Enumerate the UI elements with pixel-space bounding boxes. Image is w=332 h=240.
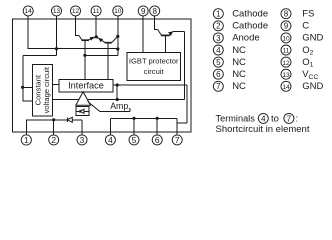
svg-text:6: 6 (155, 135, 160, 145)
svg-text:NC: NC (232, 69, 246, 80)
node pin6 junction (156, 117, 159, 120)
LED triangle (67, 117, 72, 122)
pin 14 lead (27, 16, 29, 19)
wire pin5 branch (133, 118, 135, 134)
wire Vcc left drop to constant voltage circuit (23, 56, 57, 101)
svg-text:Cathode: Cathode (232, 21, 268, 32)
wire Q3 emitter to amp output (87, 31, 184, 99)
pin 8 circle (150, 6, 160, 16)
wire LED anode to pin3 (72, 120, 82, 135)
wire NC bus pins 4-7 (110, 118, 177, 134)
photodiode stubs (76, 110, 89, 112)
svg-text:14: 14 (282, 84, 290, 91)
photodiode box PD (76, 107, 89, 116)
note terminals 4 to 7 (216, 114, 310, 135)
legend pin 5 circle (213, 57, 223, 67)
legend pin 9 circle (281, 21, 291, 31)
svg-text:2: 2 (216, 22, 221, 31)
pin 12 lead (75, 16, 77, 19)
node O2 junction (95, 35, 98, 38)
svg-text:circuit: circuit (144, 67, 165, 76)
svg-text:13: 13 (282, 72, 290, 79)
wire constant voltage to interface (53, 84, 60, 86)
svg-text:4: 4 (216, 46, 221, 55)
transistor Q2 emitter arrow (98, 38, 103, 42)
svg-text:14: 14 (25, 8, 33, 15)
svg-text:12: 12 (282, 60, 290, 67)
legend pin 1 circle (213, 9, 223, 19)
wire pin10 vertical (117, 19, 119, 55)
svg-text:4: 4 (261, 114, 266, 123)
legend pin 12 circle (281, 57, 291, 67)
svg-text:2: 2 (51, 135, 56, 145)
IGBT protector circuit block box (127, 53, 181, 81)
pin 11 circle (91, 6, 101, 16)
svg-text:13: 13 (53, 8, 61, 15)
wire pin6 branch (156, 118, 158, 134)
pin 4 circle (105, 135, 115, 145)
node Vcc CV branch junction (21, 86, 24, 89)
transistor Q2 collector diagonal (112, 36, 118, 42)
right panel pin list (213, 9, 323, 93)
wire amp label underline (100, 109, 130, 112)
svg-text:6: 6 (216, 70, 221, 79)
svg-text:GND: GND (302, 33, 323, 44)
svg-text:5: 5 (216, 58, 221, 67)
pin 3 circle (77, 135, 87, 145)
svg-text:1: 1 (216, 10, 221, 19)
legend pin 7 circle (213, 81, 223, 91)
transistor Q3 emitter arrow (168, 32, 173, 37)
wire pin12 vertical (76, 19, 79, 36)
pin 2 circle (49, 135, 59, 145)
wire pin8 vertical (155, 19, 158, 29)
pin 10 lead (117, 16, 119, 19)
svg-text:11: 11 (283, 48, 290, 55)
transistor Q3 base bar (161, 34, 170, 36)
svg-text:3: 3 (216, 34, 221, 43)
svg-text:FS: FS (302, 9, 314, 20)
pin 1 circle (21, 135, 31, 145)
node Q1 base junction (83, 54, 86, 57)
pin 10 circle (113, 6, 123, 16)
transistor Q2 base bar (105, 42, 112, 44)
svg-text:11: 11 (93, 8, 100, 15)
pin 6 circle (152, 135, 162, 145)
svg-text:10: 10 (114, 8, 122, 15)
legend pin 4 circle (213, 45, 223, 55)
legend pin 11 circle (281, 45, 291, 55)
note pin 4 circle (258, 113, 268, 123)
node GND rail junction (116, 47, 119, 50)
transistor Q1 emitter arrow (90, 37, 95, 41)
transistor Q3 collector diagonal (158, 29, 162, 35)
svg-text:9: 9 (284, 22, 289, 31)
amp triangle (76, 92, 91, 106)
wire pin11 vertical (95, 19, 97, 37)
wire pin14 GND rail (28, 19, 118, 49)
pin 5 circle (129, 135, 139, 145)
wire mid rail (85, 54, 118, 56)
package outline box (13, 19, 192, 132)
svg-text:Amp.: Amp. (110, 101, 131, 111)
photodiode cathode bar (79, 109, 81, 113)
svg-text:Anode: Anode (232, 33, 259, 44)
pin 8 lead (154, 16, 156, 19)
interface block box (59, 80, 113, 93)
svg-text:NC: NC (232, 57, 246, 68)
legend pin 13 circle (281, 69, 291, 79)
node interface right junction (116, 83, 119, 86)
svg-text:Interface: Interface (68, 81, 104, 91)
pin 14 circle (23, 6, 33, 16)
wire input cathode pins 1-2 (26, 120, 67, 135)
svg-text:Cathode: Cathode (232, 9, 268, 20)
wire interface-right to amp bus (116, 85, 118, 100)
svg-text:NC: NC (232, 81, 246, 92)
wire pin2 branch (53, 120, 55, 135)
svg-text:7: 7 (175, 135, 180, 145)
wire Q1 base to interface (84, 41, 86, 80)
node pin13 rail junction (55, 47, 58, 50)
photodiode triangle (80, 109, 84, 113)
svg-text:7: 7 (216, 82, 221, 91)
svg-text:8: 8 (284, 10, 289, 19)
legend pin 8 circle (281, 9, 291, 19)
transistor Q1 collector diagonal (79, 36, 82, 40)
svg-text:GND: GND (302, 81, 323, 92)
pin 9 lead (142, 16, 144, 19)
wire constant voltage to amp input (53, 98, 80, 100)
wire interface right to FS drop (113, 85, 187, 123)
svg-text:4: 4 (108, 135, 113, 145)
svg-text:Shortcircuit in element: Shortcircuit in element (216, 124, 310, 135)
pin 12 circle (71, 6, 81, 16)
svg-text:12: 12 (72, 8, 80, 15)
svg-text:8: 8 (152, 7, 157, 16)
svg-text:7: 7 (287, 114, 292, 123)
svg-text:voltage circuit: voltage circuit (42, 66, 51, 113)
legend pin 10 circle (281, 33, 291, 43)
svg-text:3: 3 (80, 135, 85, 145)
pin 11 lead (95, 16, 97, 19)
wire Q2 base to interface (107, 43, 109, 80)
LED cathode bar (66, 118, 68, 123)
transistor Q2 emitter diagonal (97, 37, 105, 43)
svg-text:NC: NC (232, 45, 246, 56)
legend pin 3 circle (213, 33, 223, 43)
block labels (34, 56, 179, 113)
pin 13 lead (56, 16, 58, 19)
svg-text:10: 10 (282, 36, 290, 43)
svg-text:Terminals: Terminals (216, 114, 256, 124)
pin 9 circle (138, 6, 148, 16)
node pin2 junction (52, 118, 55, 121)
junction dots (21, 35, 159, 122)
note pin 7 circle (284, 113, 294, 123)
transistor Q3 emitter diagonal (169, 31, 173, 35)
svg-text:9: 9 (141, 7, 146, 16)
constant voltage circuit block box (33, 65, 53, 117)
transistor Q1 emitter diagonal (89, 37, 97, 40)
node pin5 junction (132, 117, 135, 120)
svg-text:1: 1 (24, 135, 29, 145)
wire pin9 to IGBT protector (142, 19, 144, 53)
legend pin 6 circle (213, 69, 223, 79)
transistor Q1 base bar (82, 39, 89, 41)
pin 7 circle (172, 135, 182, 145)
wire Q3 base to IGBT protector (165, 36, 167, 53)
node amp bus junction (116, 98, 119, 101)
legend pin 14 circle (281, 81, 291, 91)
node Q2 collector junction (116, 35, 119, 38)
pin 13 circle (52, 6, 62, 16)
amp label leader diagonal (88, 102, 100, 112)
svg-text:5: 5 (132, 135, 137, 145)
svg-text:IGBT protector: IGBT protector (129, 56, 179, 65)
pin circles top (21, 6, 182, 145)
wire pin13 vertical (56, 19, 58, 56)
svg-text:C: C (302, 21, 309, 32)
legend pin 2 circle (213, 21, 223, 31)
